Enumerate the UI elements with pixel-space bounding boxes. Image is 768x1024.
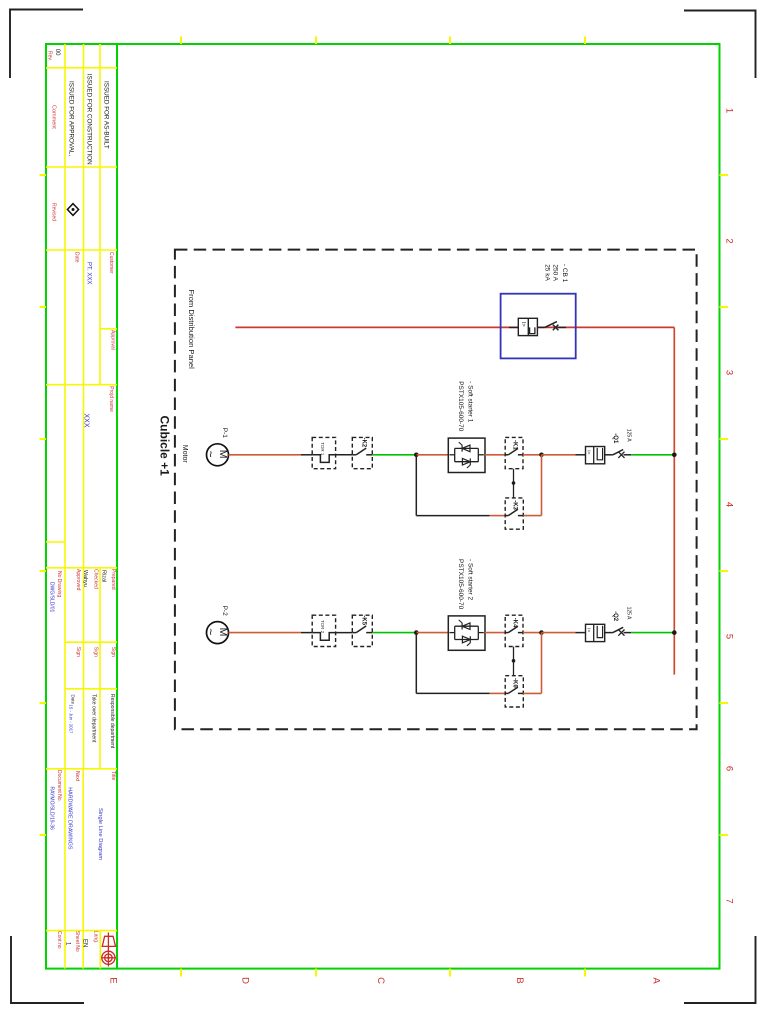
incoming feed wire (red)	[235, 326, 674, 328]
corner trim mark top-right	[684, 11, 756, 79]
svg-text:B: B	[514, 977, 525, 983]
svg-text:XXX: XXX	[82, 414, 89, 428]
svg-text:Sign: Sign	[75, 647, 81, 657]
wire segment (black)	[301, 454, 312, 456]
main contactor -K4	[505, 615, 523, 646]
svg-text:3: 3	[724, 370, 735, 375]
svg-text:Date: Date	[71, 695, 76, 705]
svg-text:Checked: Checked	[93, 569, 99, 589]
svg-text:- Soft starter 1: - Soft starter 1	[466, 381, 473, 423]
svg-text:Sign: Sign	[110, 647, 116, 657]
svg-text:I>: I>	[585, 628, 591, 632]
svg-text:Lang.: Lang.	[92, 931, 98, 944]
wire breaker to bus (green)	[631, 454, 674, 456]
bypass wire (orange)	[490, 515, 506, 517]
bypass wire (orange)	[490, 692, 506, 694]
svg-text:Cont.no: Cont.no	[56, 931, 62, 949]
motor P-2 symbol	[207, 622, 229, 644]
svg-text:Sign: Sign	[93, 647, 99, 657]
wire soft starter to contactor (orange)	[485, 454, 505, 456]
svg-text:P-1: P-1	[221, 428, 228, 439]
wire breaker to bus (green)	[631, 632, 674, 634]
bypass wire return (orange)	[523, 692, 541, 694]
svg-text:Title: Title	[110, 771, 116, 780]
title block column lines	[64, 44, 66, 969]
svg-text:E: E	[108, 977, 119, 983]
thermal overload relay TOR 2	[312, 615, 335, 646]
breaker -Q1 release box	[576, 454, 586, 456]
main bus wire (vertical)	[673, 327, 675, 674]
svg-text:Take over department: Take over department	[91, 694, 97, 743]
svg-text:-K3: -K3	[512, 500, 518, 510]
svg-text:~: ~	[204, 628, 218, 635]
wire junction to soft starter (orange)	[416, 454, 448, 456]
wire segment (green)	[372, 632, 416, 634]
svg-text:2: 2	[724, 238, 735, 243]
svg-text:-K2: -K2	[360, 438, 366, 448]
svg-text:Projd name: Projd name	[108, 386, 114, 412]
svg-text:Motor: Motor	[181, 445, 188, 464]
svg-text:7: 7	[724, 898, 735, 903]
svg-text:Rizal: Rizal	[101, 570, 107, 582]
breaker -Q1 switch contact	[605, 454, 613, 456]
svg-text:6: 6	[724, 766, 735, 771]
wire contactor to node (orange)	[523, 632, 542, 634]
node: contactor output junction	[539, 453, 544, 458]
bypass wire down (black)	[415, 455, 417, 516]
motor P-1 symbol	[207, 444, 229, 466]
svg-text:Responsible department: Responsible department	[109, 694, 115, 749]
svg-text:Approval: Approval	[109, 330, 115, 350]
title block row lines	[46, 67, 117, 69]
svg-text:ISSUED FOR APPROVAL,: ISSUED FOR APPROVAL,	[68, 81, 75, 156]
svg-text:EN: EN	[81, 939, 87, 947]
svg-text:- CB 1: - CB 1	[561, 264, 568, 283]
svg-text:Document No.: Document No.	[56, 770, 62, 802]
bypass wire down (black)	[415, 633, 417, 694]
breaker -Q2 switch contact	[605, 632, 613, 634]
wire segment (black)	[336, 454, 353, 456]
svg-text:Prepared: Prepared	[110, 569, 116, 590]
svg-text:Customer: Customer	[108, 252, 114, 274]
node: soft starter input junction	[414, 453, 419, 458]
svg-text:Approved: Approved	[75, 569, 81, 591]
svg-text:Next: Next	[74, 771, 80, 782]
svg-text:-K5: -K5	[360, 615, 366, 625]
line contactor -K2	[352, 437, 372, 468]
svg-text:RAYMO/SLD/19-36: RAYMO/SLD/19-36	[49, 787, 55, 830]
svg-text:- Soft starter 2: - Soft starter 2	[466, 559, 473, 601]
corner trim mark bottom-left	[11, 936, 84, 1003]
svg-text:-Q2: -Q2	[612, 611, 618, 622]
svg-text:250 A: 250 A	[552, 264, 559, 281]
breaker -Q2 release box	[576, 632, 586, 634]
svg-text:5: 5	[724, 634, 735, 639]
svg-text:-K6: -K6	[512, 678, 518, 688]
svg-text:Wahyu: Wahyu	[82, 570, 88, 587]
zone centering ticks bottom edge	[180, 969, 182, 977]
wire motor to overload (orange)	[229, 632, 302, 634]
zone centering ticks top edge	[180, 37, 182, 45]
svg-text:Single Line Diagram: Single Line Diagram	[97, 808, 103, 860]
svg-text:PT. XXX: PT. XXX	[86, 262, 92, 284]
svg-text:00: 00	[54, 49, 60, 56]
svg-text:15 - Jun - 2017: 15 - Jun - 2017	[69, 705, 74, 735]
svg-text:Sheet No: Sheet No	[74, 931, 80, 952]
drawing frame (green)	[46, 44, 720, 969]
svg-text:-Q1: -Q1	[612, 433, 618, 444]
wire junction to breaker (orange)	[542, 454, 576, 456]
corner trim mark bottom-right	[684, 936, 756, 1003]
circuit breaker CB1 enclosure (blue)	[501, 294, 576, 359]
contactor link line	[513, 469, 515, 498]
node: soft starter input junction	[414, 630, 419, 635]
bypass contactor -K3	[505, 498, 523, 529]
bypass contactor -K6	[505, 676, 523, 707]
svg-text:~: ~	[204, 451, 218, 458]
svg-text:I>: I>	[520, 322, 526, 327]
svg-text:DWG/SLD/01: DWG/SLD/01	[49, 582, 55, 613]
bypass wire return (orange)	[523, 515, 541, 517]
soft starter ss PSTX105-600-70	[448, 616, 485, 650]
svg-text:D: D	[240, 977, 251, 984]
contactor link line	[513, 647, 515, 676]
svg-text:P-2: P-2	[221, 606, 228, 617]
svg-text:TOR 2: TOR 2	[320, 620, 325, 634]
zone centering ticks left edge	[40, 174, 47, 176]
CB1 switch contact	[537, 326, 544, 328]
svg-text:Comment: Comment	[50, 105, 56, 129]
wire segment (black)	[336, 632, 353, 634]
svg-text:125 A: 125 A	[625, 607, 631, 620]
first angle projection symbol	[107, 933, 109, 967]
soft starter ss PSTX105-600-70	[448, 438, 485, 472]
svg-text:I>: I>	[585, 450, 591, 454]
svg-text:PSTX105-600-70: PSTX105-600-70	[457, 381, 464, 432]
wire motor to overload (orange)	[229, 454, 302, 456]
svg-text:ISSUED FOR AS-BUILT: ISSUED FOR AS-BUILT	[102, 81, 109, 149]
line contactor -K5	[352, 615, 372, 646]
wire soft starter to contactor (orange)	[485, 632, 505, 634]
svg-text:No Drawing: No Drawing	[56, 571, 62, 597]
CB1 release box	[509, 326, 518, 328]
svg-text:PSTX105-600-70: PSTX105-600-70	[457, 559, 464, 610]
svg-text:HARDWARE DRAWINGS: HARDWARE DRAWINGS	[67, 787, 73, 850]
svg-text:125 A: 125 A	[625, 429, 631, 442]
revision diamond symbol	[67, 204, 78, 216]
svg-text:ISSUED FOR CONSTRUCTION: ISSUED FOR CONSTRUCTION	[85, 74, 92, 165]
main contactor -K1	[505, 437, 523, 468]
wire junction to soft starter (orange)	[416, 632, 448, 634]
svg-text:Cubicle +1: Cubicle +1	[158, 416, 172, 477]
thermal overload relay TOR 1	[312, 437, 335, 468]
svg-text:TOR 1: TOR 1	[320, 442, 325, 456]
svg-text:From Distribution Panel: From Distribution Panel	[187, 290, 196, 370]
svg-text:C: C	[375, 977, 386, 984]
zone centering ticks right edge	[720, 174, 729, 176]
wire segment (green)	[372, 454, 416, 456]
corner trim mark top-left	[10, 10, 83, 79]
svg-text:Revised: Revised	[50, 203, 56, 221]
wire segment (black)	[301, 632, 312, 634]
node: contactor output junction	[539, 630, 544, 635]
wire contactor to node (orange)	[523, 454, 542, 456]
title block inner green border	[116, 44, 118, 969]
svg-text:Rev.: Rev.	[47, 51, 53, 61]
svg-text:1: 1	[724, 108, 735, 113]
wire junction to breaker (orange)	[542, 632, 576, 634]
svg-text:4: 4	[724, 502, 735, 507]
node: bus junction	[672, 630, 677, 635]
svg-text:25 kA: 25 kA	[543, 264, 550, 281]
svg-text:Date: Date	[74, 252, 80, 263]
node: bus junction	[672, 453, 677, 458]
svg-text:A: A	[651, 977, 662, 984]
cubicle +1 dashed enclosure	[175, 250, 697, 730]
